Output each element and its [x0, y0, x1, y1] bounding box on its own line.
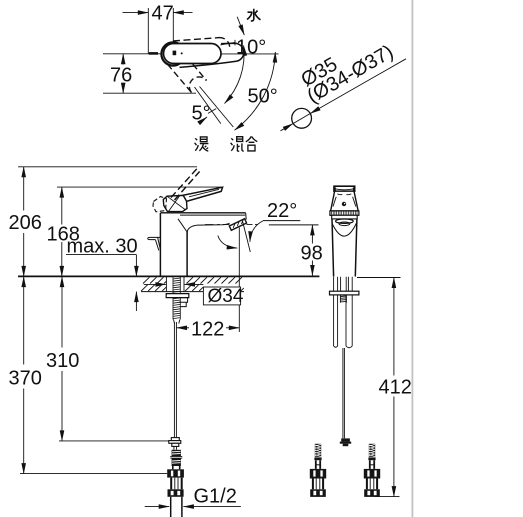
cap — [334, 186, 355, 191]
hose down — [173, 322, 175, 438]
funnel left diagonal — [178, 219, 187, 232]
flange plate — [330, 291, 359, 295]
svg-text:122: 122 — [191, 319, 224, 341]
body right edge — [186, 232, 188, 277]
47 ext line left — [147, 8, 149, 54]
svg-text:22°: 22° — [267, 200, 297, 222]
svg-text:Ø34: Ø34 — [208, 286, 244, 307]
bottom connector right (side view) — [364, 444, 380, 497]
body top face — [160, 212, 245, 214]
mixed line 50deg — [200, 87, 234, 128]
hose right pair — [346, 295, 352, 348]
arc 0-55 outer — [235, 52, 276, 130]
nut — [310, 469, 326, 479]
connector bottom block — [168, 489, 184, 497]
stream tilted line — [243, 221, 251, 252]
arrow to 5deg wedge — [202, 117, 207, 121]
handle left tip bar — [149, 52, 158, 55]
76 ref line bottom — [103, 92, 196, 94]
22deg ref line — [263, 220, 301, 222]
ref line top 206 — [18, 166, 197, 168]
side body — [332, 219, 357, 277]
knurled collar — [330, 211, 359, 215]
ref line 168 — [57, 186, 222, 188]
G1/2 dim — [145, 506, 170, 508]
dashed knuckle — [153, 197, 167, 212]
single hose — [343, 348, 345, 438]
fitting step right — [179, 298, 188, 307]
top face right edge — [245, 213, 248, 220]
rotation arc arrow left — [218, 236, 237, 249]
check valve threaded body — [172, 450, 181, 466]
dim 168 vertical — [61, 187, 63, 224]
neck small — [174, 446, 177, 449]
lever cone — [331, 191, 359, 211]
wire centerline right — [221, 53, 279, 55]
washer under counter — [166, 294, 189, 298]
svg-text:206: 206 — [9, 212, 42, 234]
bottom connector left (side view) — [310, 444, 326, 497]
stud threaded short — [340, 295, 346, 303]
funnel curve to spout underside — [187, 223, 230, 232]
tick on 55 line — [208, 109, 216, 114]
shank threads — [173, 277, 181, 320]
svg-text:76: 76 — [110, 65, 132, 87]
body left edge — [159, 213, 161, 276]
dim 122 — [177, 327, 190, 329]
collar bar — [314, 457, 321, 460]
connector nut — [167, 469, 184, 477]
aerator ring — [336, 219, 354, 223]
counter hatch — [141, 277, 244, 291]
76 dim vertical — [122, 54, 124, 65]
hole circle symbol — [292, 108, 312, 128]
arc 10-50 inner — [225, 45, 245, 103]
svg-text:50°: 50° — [248, 86, 278, 108]
mixed line 55deg — [195, 87, 221, 124]
counter bottom line — [141, 291, 244, 293]
spout plan outline — [180, 43, 244, 67]
hose end fitting side — [340, 438, 351, 446]
valve neck — [173, 466, 180, 469]
svg-text:370: 370 — [9, 368, 42, 390]
lever grip stadium — [164, 44, 222, 64]
dim 412 vertical — [393, 278, 395, 289]
handle knuckle — [163, 195, 187, 211]
dashed lever 10 deg cap — [219, 38, 230, 48]
cone dot — [342, 202, 346, 206]
47 ext line right — [172, 8, 174, 42]
hole edges — [165, 276, 167, 291]
svg-text:10°: 10° — [236, 37, 266, 59]
aerator inner — [339, 222, 350, 226]
10deg line tick — [234, 40, 236, 46]
spout silhouette curve — [332, 223, 357, 237]
dashed lever 50 deg side2 — [193, 64, 207, 80]
hose end fitting — [169, 438, 181, 447]
10deg line to text — [220, 42, 234, 45]
310 ref line — [59, 440, 169, 442]
svg-text:310: 310 — [46, 350, 79, 372]
side tab — [148, 237, 161, 250]
grip dot square — [173, 51, 177, 56]
threaded stem — [315, 444, 321, 457]
dim 310 vertical — [61, 277, 63, 286]
collar band2 — [332, 215, 358, 219]
label mizu (water) — [247, 9, 261, 21]
svg-text:47: 47 — [152, 3, 174, 25]
aerator tilted — [229, 219, 246, 231]
dia34 leader arrows — [144, 283, 166, 285]
neck2 — [313, 479, 323, 490]
dia35 leader line — [281, 124, 294, 131]
label kongou (mixed) — [231, 136, 258, 151]
aerator center dashes — [205, 224, 258, 226]
dashed blade — [171, 168, 200, 200]
wire centerline left — [103, 53, 161, 55]
dia34 box — [203, 287, 240, 305]
grip dot small — [181, 52, 183, 54]
22deg arc arrow right — [250, 221, 263, 242]
370 ref line — [20, 473, 167, 475]
counter top line — [18, 275, 319, 277]
ref line top 412 — [357, 277, 401, 279]
svg-text:98: 98 — [301, 243, 323, 265]
dashed lever 50 deg side1 — [168, 64, 192, 92]
handle blade solid — [183, 187, 223, 201]
supply tube — [170, 497, 172, 517]
dim 98 vertical — [311, 225, 313, 244]
ref line bottom 412 — [375, 496, 400, 498]
dim 206 vertical — [23, 167, 25, 211]
stream vertical line — [238, 228, 240, 333]
label yu (hot) — [195, 137, 209, 151]
mizu arrow — [237, 17, 244, 35]
blade inner line — [189, 189, 219, 197]
dashed lever 50 deg cap — [189, 77, 206, 93]
dashed lever 10 deg top edge — [173, 38, 220, 41]
svg-text:5°: 5° — [192, 103, 211, 125]
neck — [316, 460, 320, 469]
max30 line — [66, 254, 136, 256]
block — [310, 489, 326, 497]
svg-text:412: 412 — [379, 377, 412, 399]
connector neck — [171, 478, 182, 490]
svg-text:G1/2: G1/2 — [194, 486, 237, 508]
shank lines below body — [334, 277, 353, 291]
98 top ref line — [269, 224, 319, 226]
stud tip — [174, 320, 180, 324]
divider line — [411, 0, 413, 517]
pivot circle — [161, 42, 184, 65]
hose left pair — [334, 295, 338, 347]
47 dim arrows — [123, 12, 149, 14]
dim 370 vertical — [23, 277, 25, 286]
knuckle inner lines — [167, 196, 185, 211]
